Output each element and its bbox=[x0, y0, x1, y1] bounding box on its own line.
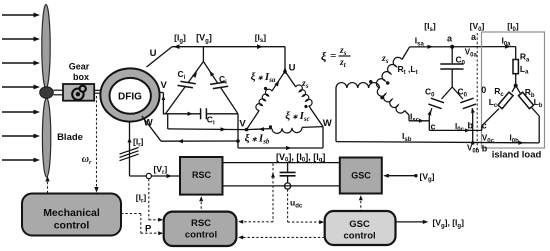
svg-text:[V0], [I0], [Ig]: [V0], [I0], [Ig] bbox=[276, 152, 325, 164]
svg-text:zs: zs bbox=[381, 54, 389, 65]
svg-text:zs: zs bbox=[301, 79, 309, 90]
hub bbox=[40, 87, 54, 99]
svg-text:RSC: RSC bbox=[192, 170, 212, 180]
node V of impedance delta bbox=[245, 128, 249, 132]
svg-text:La: La bbox=[520, 64, 529, 76]
RSC control bbox=[164, 212, 237, 246]
wire V to impedance delta bbox=[167, 114, 169, 129]
svg-text:ωr: ωr bbox=[82, 154, 92, 166]
svg-text:V: V bbox=[161, 80, 168, 91]
wire I_sc from transformer bbox=[409, 120, 429, 122]
svg-text:control: control bbox=[185, 229, 217, 240]
node c bbox=[428, 121, 430, 131]
rotor wire bbox=[129, 122, 131, 176]
capacitor Ci bottom bbox=[163, 113, 200, 115]
svg-text:[Ir]: [Ir] bbox=[136, 193, 147, 205]
svg-text:Rt ,Lt: Rt ,Lt bbox=[398, 64, 418, 76]
wire rotor to RSC bbox=[130, 175, 147, 177]
svg-text:Rc: Rc bbox=[494, 86, 504, 98]
capacitor C0 phase a bbox=[451, 47, 453, 64]
dc link capacitor bbox=[287, 163, 289, 172]
svg-text:C0: C0 bbox=[458, 87, 468, 99]
wire U terminal diagonal bbox=[147, 47, 173, 67]
island load box bbox=[482, 32, 545, 148]
dashed rotor meas to RSC control bbox=[148, 179, 150, 220]
DFIG generator bbox=[100, 68, 159, 121]
capacitor C0 phase b (slant right) bbox=[452, 87, 463, 99]
svg-text:Ra: Ra bbox=[520, 52, 530, 64]
svg-text:V0a: V0a bbox=[465, 48, 478, 59]
svg-text:zs: zs bbox=[339, 46, 347, 57]
wire b down bbox=[472, 122, 474, 143]
shaft hub to gearbox bbox=[54, 89, 64, 91]
blade lower bbox=[42, 98, 50, 177]
capacitor Ci right bbox=[203, 62, 217, 84]
arrow I_s bbox=[257, 44, 263, 49]
dashed feedback V0 I0 Ig bbox=[272, 164, 274, 222]
svg-text:Lb: Lb bbox=[534, 97, 543, 109]
polarity dots bbox=[369, 80, 372, 83]
wire control outputs bbox=[396, 221, 427, 223]
svg-text:[Vg], [Ig]: [Vg], [Ig] bbox=[433, 218, 465, 230]
svg-text:Ci: Ci bbox=[219, 74, 227, 86]
svg-text:C0: C0 bbox=[425, 87, 435, 99]
capacitor Ci left (delta filter) bbox=[188, 62, 203, 83]
svg-text:[Is]: [Is] bbox=[255, 32, 267, 44]
svg-text:ξ ∗ Isb: ξ ∗ Isb bbox=[245, 133, 270, 146]
svg-text:Mechanical: Mechanical bbox=[43, 207, 100, 219]
wire to filter apex bbox=[202, 47, 204, 62]
GSC converter bbox=[340, 158, 382, 194]
svg-text:[I0]: [I0] bbox=[507, 21, 519, 33]
svg-text:control: control bbox=[54, 220, 90, 232]
wire W vertical from Ci corner bbox=[237, 114, 239, 148]
shaft gearbox to DFIG bbox=[94, 89, 101, 91]
omega_r dashed speed feedback bbox=[96, 96, 98, 191]
svg-text:DFIG: DFIG bbox=[118, 92, 142, 103]
svg-text:GSC: GSC bbox=[349, 219, 370, 230]
svg-text:U: U bbox=[150, 48, 157, 59]
svg-text:b: b bbox=[482, 144, 488, 154]
svg-text:zt: zt bbox=[339, 58, 347, 69]
svg-text:0: 0 bbox=[481, 85, 486, 95]
wire down to U node of impedance delta bbox=[284, 47, 286, 72]
blade upper bbox=[42, 5, 50, 89]
load R_a L_a bbox=[515, 47, 517, 60]
svg-text:ξ ∗ Isc: ξ ∗ Isc bbox=[285, 110, 309, 123]
transformer winding b (left) bbox=[336, 83, 380, 88]
GSC control bbox=[325, 211, 396, 245]
dashed RSC gate bbox=[200, 198, 202, 212]
load R_c L_c bbox=[512, 86, 516, 93]
svg-text:V: V bbox=[239, 119, 246, 130]
svg-text:a: a bbox=[471, 32, 477, 42]
svg-text:udc: udc bbox=[290, 198, 303, 210]
svg-text:island load: island load bbox=[492, 149, 542, 160]
svg-text:Ci: Ci bbox=[178, 69, 186, 81]
svg-text:RSC: RSC bbox=[191, 218, 211, 229]
svg-text:I0b: I0b bbox=[510, 134, 520, 145]
svg-text:[Ig]: [Ig] bbox=[174, 33, 186, 45]
wire V_g input bbox=[385, 175, 416, 177]
svg-text:Isc: Isc bbox=[410, 112, 420, 124]
dashed GSC control to RSC control bbox=[240, 236, 325, 238]
winding xi*zs side c bbox=[285, 71, 296, 87]
svg-text:[Vr]: [Vr] bbox=[154, 164, 168, 176]
svg-text:Blade: Blade bbox=[57, 132, 83, 143]
winding xi*zs side a bbox=[247, 110, 260, 129]
svg-text:Gear: Gear bbox=[69, 62, 90, 72]
svg-text:ξ ∗ Isa: ξ ∗ Isa bbox=[251, 71, 276, 84]
gear box bbox=[63, 84, 94, 101]
star node 0 bbox=[514, 84, 518, 88]
svg-text:a: a bbox=[447, 34, 453, 44]
svg-text:U: U bbox=[289, 63, 296, 74]
svg-text:Lc: Lc bbox=[489, 97, 498, 109]
transformer winding a (upper, Rt Lt) bbox=[376, 57, 402, 88]
wire phase a to island bbox=[410, 46, 516, 48]
svg-text:[Vg]: [Vg] bbox=[196, 33, 212, 45]
wire W bottom run bbox=[238, 147, 323, 149]
wire stator top bus bbox=[172, 46, 285, 48]
svg-text:[Ir]: [Ir] bbox=[133, 137, 144, 149]
wind arrows bbox=[2, 14, 34, 16]
dashed P from mech control bbox=[121, 213, 141, 215]
svg-text:V0b: V0b bbox=[467, 144, 480, 155]
capacitor C0 phase c (slant left) bbox=[442, 87, 453, 99]
svg-text:I0c: I0c bbox=[455, 122, 465, 133]
svg-text:[Vg]: [Vg] bbox=[420, 171, 435, 183]
svg-text:Isb: Isb bbox=[402, 131, 412, 143]
Mechanical control bbox=[22, 194, 121, 236]
svg-text:GSC: GSC bbox=[351, 171, 371, 181]
svg-text:ξ: ξ bbox=[321, 49, 327, 63]
RSC converter bbox=[180, 157, 223, 195]
node a bbox=[450, 45, 454, 49]
dc bus wires bbox=[223, 162, 340, 164]
load R_b L_b bbox=[516, 86, 521, 94]
svg-text:P: P bbox=[145, 224, 152, 235]
svg-text:W: W bbox=[323, 118, 332, 129]
dashed u_dc to GSC control bbox=[287, 189, 289, 222]
dashed measurement line 0 bbox=[476, 33, 478, 152]
svg-text:[Is]: [Is] bbox=[424, 21, 436, 33]
svg-text:box: box bbox=[73, 72, 89, 82]
wire I_0c bbox=[429, 129, 482, 131]
wire I_sb from transformer to island bbox=[336, 142, 539, 143]
svg-text:Ci: Ci bbox=[207, 115, 215, 127]
svg-text:control: control bbox=[343, 230, 375, 241]
node U of impedance delta bbox=[283, 70, 287, 74]
transformer winding c (lower) bbox=[377, 88, 404, 113]
arrow I_g bbox=[174, 44, 180, 49]
winding xi*zs side b bbox=[247, 129, 273, 130]
blade pitch dashed bbox=[47, 178, 49, 193]
dashed GSC gate bbox=[360, 197, 362, 212]
svg-text:=: = bbox=[330, 50, 336, 62]
svg-text:Isa: Isa bbox=[415, 36, 425, 48]
